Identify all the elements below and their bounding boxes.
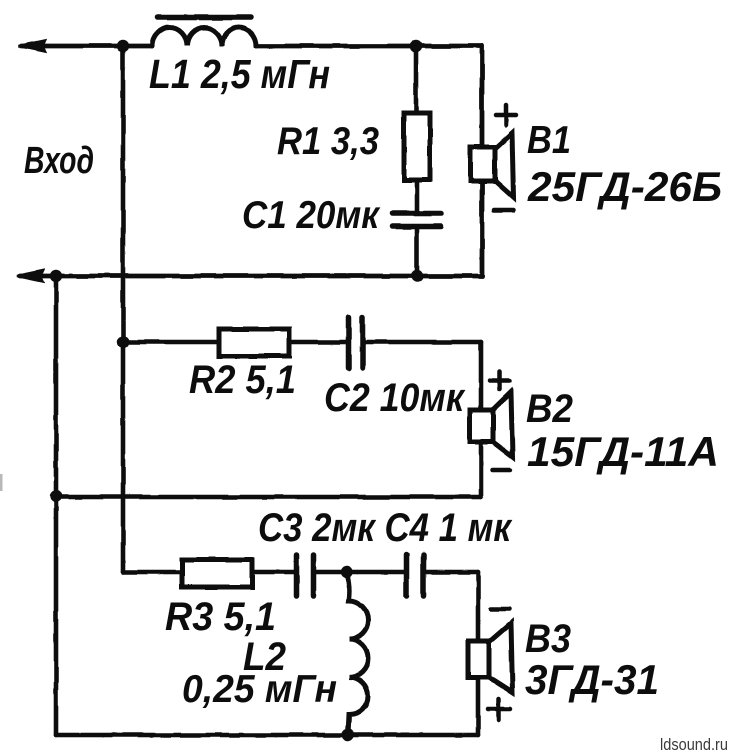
capacitor C2 plates	[349, 317, 363, 368]
wire bottom rail 2 y=497	[56, 495, 481, 500]
B3 minus sign	[491, 607, 509, 612]
svg-text:R3 5,1: R3 5,1	[165, 595, 276, 639]
svg-text:В1: В1	[527, 119, 571, 162]
node junction dot: bottom rail 1 / left rail B	[50, 270, 62, 282]
capacitor C1 plates	[393, 214, 441, 227]
wire branch 2 horizontal y=342	[123, 340, 481, 345]
wire B3 right drop x=478	[476, 572, 481, 735]
wire left rail B x=56 (bottom rail 1 down to bottom rail 3)	[54, 276, 59, 735]
resistor R1	[404, 113, 430, 180]
B3 plus sign	[488, 699, 510, 720]
node junction dot: bottom rail 1 / C1 branch	[411, 270, 423, 282]
svg-text:Вход: Вход	[24, 140, 94, 182]
svg-text:3ГД-31: 3ГД-31	[525, 656, 659, 703]
node junction dot: bottom rail 2 / left rail B	[50, 490, 62, 502]
svg-text:0,25 мГн: 0,25 мГн	[182, 668, 337, 711]
svg-text:C1 20мк: C1 20мк	[242, 194, 381, 237]
svg-text:R1 3,3: R1 3,3	[277, 120, 379, 163]
B2 minus sign	[493, 468, 510, 473]
input terminal arrow (top)	[19, 41, 45, 52]
svg-text:В3: В3	[525, 617, 571, 661]
node junction dot: C3/C4/L2	[341, 566, 353, 578]
svg-text:R2 5,1: R2 5,1	[189, 358, 296, 402]
svg-text:15ГД-11А: 15ГД-11А	[527, 428, 719, 475]
B2 plus sign	[490, 372, 510, 390]
node junction dot: top rail / left rail A	[117, 40, 129, 52]
inductor L1 core bar	[157, 15, 251, 21]
wire bottom rail 1 y=276	[20, 274, 482, 279]
speaker B1	[471, 147, 495, 181]
capacitor C3 plates	[297, 555, 314, 596]
B1 plus sign	[496, 105, 516, 125]
capacitor C4 plates	[407, 555, 424, 596]
wire branch 3 horizontal y=572	[123, 570, 478, 575]
wire left rail A x=123 (top rail down to branch 3)	[121, 46, 126, 572]
wire R1 branch vertical	[416, 46, 417, 276]
svg-text:L1 2,5 мГн: L1 2,5 мГн	[149, 51, 330, 97]
node junction dot: branch 2 tap on rail A	[117, 336, 129, 348]
resistor R2	[219, 329, 289, 356]
wire top rail y=46	[22, 44, 482, 49]
inductor L1 winding	[152, 28, 256, 47]
svg-text:В2: В2	[526, 387, 573, 431]
speaker B2	[470, 410, 493, 442]
wire B2 right drop x=481	[479, 342, 484, 497]
svg-text:25ГД-26Б: 25ГД-26Б	[527, 163, 722, 210]
wire B1 right drop x=482	[480, 46, 485, 276]
scan artifact left edge	[0, 474, 3, 491]
input terminal arrow (bottom)	[17, 271, 43, 282]
svg-text:C3 2мк C4 1 мк: C3 2мк C4 1 мк	[258, 506, 513, 550]
inductor L2 winding	[347, 572, 368, 735]
B1 minus sign	[494, 208, 513, 213]
speaker B3	[468, 641, 489, 677]
svg-text:C2 10мк: C2 10мк	[324, 376, 466, 420]
svg-text:ldsound.ru: ldsound.ru	[660, 736, 728, 754]
node junction dot: top rail / R1 branch	[410, 40, 422, 52]
resistor R3	[182, 560, 252, 587]
node junction dot: L2 bottom / bottom rail 3	[342, 729, 354, 741]
wire bottom rail 3 y=735	[56, 733, 478, 738]
